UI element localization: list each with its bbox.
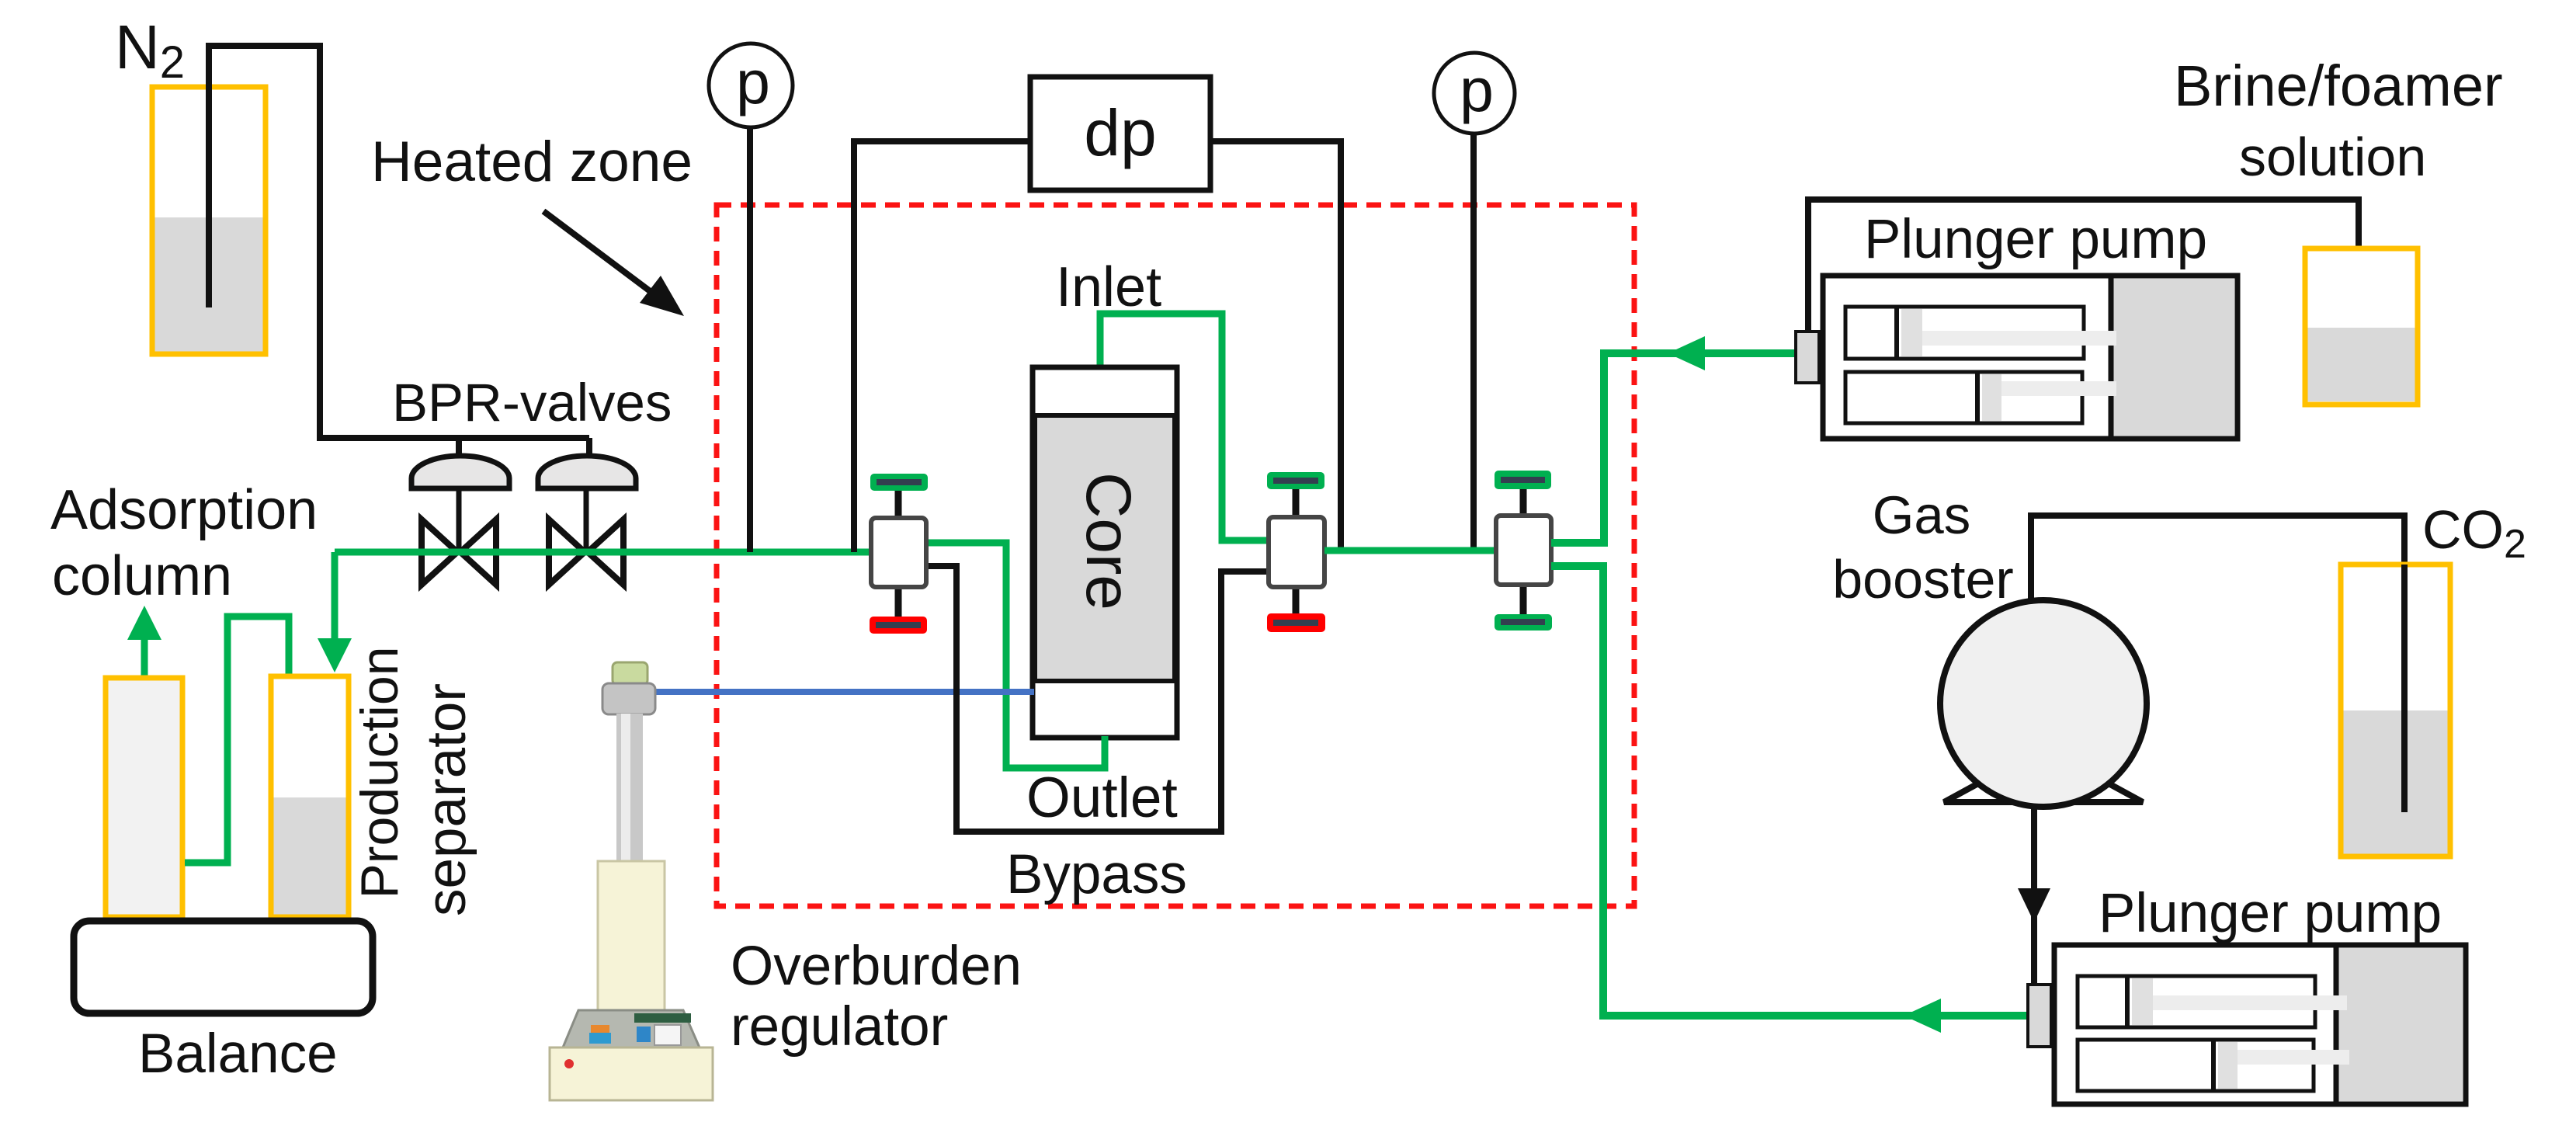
adsorption column vent arrow: [141, 637, 148, 678]
green drop into separator: [332, 552, 338, 640]
BPR valve 2 bowtie: [549, 519, 623, 585]
svg-text:p: p: [1460, 55, 1494, 124]
plunger pump 2: [2028, 945, 2466, 1104]
green line V3 to brine pump: [1551, 353, 1798, 543]
BPR valve 2 stem: [584, 488, 589, 552]
svg-text:dp: dp: [1084, 96, 1156, 169]
overburden regulator device: [550, 662, 713, 1100]
brine suction pipe: [1808, 200, 2359, 392]
svg-text:Adsorption: Adsorption: [50, 479, 318, 541]
green line V2 to V3: [1324, 547, 1498, 554]
heated zone dashed boundary: [717, 205, 1634, 906]
svg-text:Heated zone: Heated zone: [371, 130, 693, 193]
production separator: [271, 676, 349, 917]
svg-text:Inlet: Inlet: [1056, 256, 1161, 318]
svg-text:regulator: regulator: [731, 996, 948, 1058]
BPR valve 1 bowtie: [422, 519, 496, 585]
gas booster feet: [1944, 755, 2143, 802]
N2 supply line: [209, 46, 589, 438]
BPR valve 1 stem: [457, 488, 462, 552]
N2 container: [152, 87, 266, 354]
valve V2 (core outlet): [1267, 472, 1325, 632]
svg-text:p: p: [736, 47, 770, 116]
adsorption column: [106, 678, 182, 917]
svg-text:Gas: Gas: [1873, 485, 1971, 545]
BPR valve 1 dome: [411, 456, 509, 488]
BPR valve 2 dome: [538, 456, 636, 488]
svg-text:solution: solution: [2239, 127, 2426, 187]
blue overburden line: [654, 689, 1034, 695]
pressure gauge P1: [709, 43, 793, 552]
main green line BPR to valve V1: [335, 549, 873, 556]
pressure gauge P2: [1434, 53, 1515, 552]
heated zone arrow: [543, 211, 684, 316]
svg-text:booster: booster: [1832, 549, 2013, 610]
svg-text:BPR-valves: BPR-valves: [392, 373, 672, 433]
inlet green line: [1100, 314, 1267, 540]
svg-text:separator: separator: [416, 683, 477, 916]
svg-text:Plunger pump: Plunger pump: [2099, 883, 2442, 944]
core holder: [1033, 367, 1177, 738]
svg-text:Plunger pump: Plunger pump: [1864, 209, 2207, 270]
outlet green line: [928, 543, 1105, 768]
svg-text:Bypass: Bypass: [1006, 844, 1187, 905]
balance: [74, 921, 373, 1013]
svg-text:Production: Production: [350, 646, 409, 898]
wire stub to BPR dome 2: [586, 438, 592, 460]
green line V3 to CO2 pump: [1551, 566, 2031, 1016]
svg-text:Overburden: Overburden: [731, 936, 1022, 997]
dp transducer box: [1030, 77, 1210, 190]
svg-text:Balance: Balance: [138, 1023, 338, 1085]
bypass black line: [926, 566, 1269, 832]
brine container: [2305, 248, 2418, 405]
dp transducer lines: [854, 141, 1033, 552]
plunger pump 1: [1796, 276, 2238, 439]
svg-text:Core: Core: [1073, 472, 1144, 610]
valve V1 (core inlet): [870, 474, 928, 634]
svg-text:column: column: [52, 545, 232, 607]
CO2 line: [2031, 516, 2404, 812]
separator transfer line: [185, 617, 289, 863]
svg-text:Outlet: Outlet: [1026, 766, 1178, 829]
CO2 container: [2341, 565, 2450, 856]
wire stub to BPR dome 1: [456, 438, 462, 460]
booster to pump2 line with arrow: [2031, 804, 2037, 893]
valve V3 (distribution): [1495, 471, 1552, 631]
gas booster circle: [1940, 600, 2147, 807]
svg-text:Brine/foamer: Brine/foamer: [2174, 54, 2503, 118]
